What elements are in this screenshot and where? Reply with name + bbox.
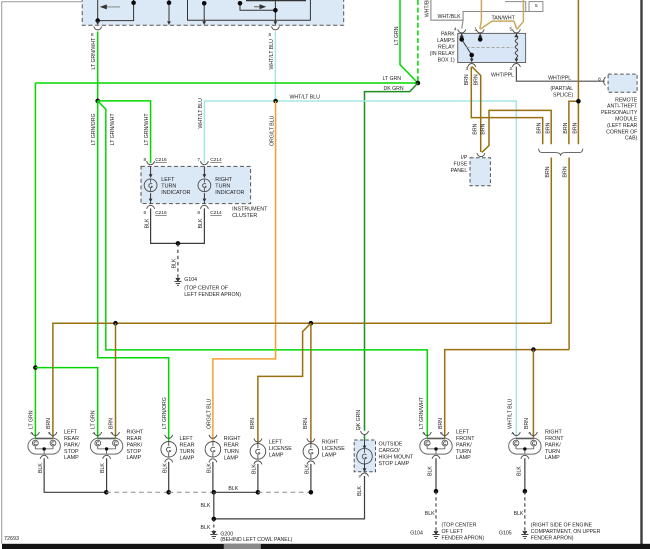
svg-text:TAN/WHT: TAN/WHT: [492, 15, 516, 21]
svg-text:BRN: BRN: [480, 123, 486, 134]
svg-text:OF LEFT: OF LEFT: [442, 529, 464, 535]
svg-text:WHT/LT BLU: WHT/LT BLU: [198, 98, 204, 129]
svg-text:3: 3: [466, 66, 469, 72]
connector lamp6 bottom: [307, 461, 315, 465]
connector C214 bottom pin 8: [200, 205, 208, 209]
svg-text:BRN: BRN: [546, 122, 552, 133]
svg-text:7: 7: [197, 157, 200, 163]
wire BRN to right license lamp: [310, 323, 312, 444]
wire inside box pin C: [203, 3, 205, 23]
junction BLK bus lamp3: [166, 490, 171, 495]
svg-text:BLK: BLK: [200, 525, 210, 531]
lamp L5 left license: [250, 444, 266, 460]
svg-text:WHT/BLK: WHT/BLK: [438, 14, 462, 20]
svg-text:BRN: BRN: [572, 122, 578, 133]
lamp L3 left rear turn: [161, 442, 177, 458]
wire ORG/LT BLU down: [213, 101, 276, 442]
svg-text:BLK: BLK: [425, 511, 435, 517]
lamp L9 right front park/turn: [509, 438, 541, 454]
svg-text:LT GRN: LT GRN: [383, 76, 402, 82]
lamp L8 left front park/turn: [420, 438, 452, 454]
wire BLK bus dashed 2: [169, 491, 214, 493]
svg-text:DK GRN: DK GRN: [384, 86, 404, 92]
svg-text:LT GRN: LT GRN: [394, 26, 400, 45]
svg-text:FRONT: FRONT: [545, 436, 564, 442]
exit arrow box A: [96, 21, 100, 25]
wire BRN relay pin3 straight: [471, 67, 542, 145]
wire WHT/BLK: [431, 0, 529, 29]
svg-text:LT GRN/WHT: LT GRN/WHT: [91, 37, 97, 70]
svg-text:BRN: BRN: [563, 166, 569, 177]
svg-text:LICENSE: LICENSE: [322, 446, 345, 452]
exit arrow box B: [167, 21, 171, 25]
connector lamp7 bottom pin 1: [361, 473, 369, 477]
connector lamp4 bottom: [209, 459, 217, 463]
svg-text:BRN: BRN: [474, 74, 480, 85]
wire BRN to lamp2: [115, 323, 117, 438]
relay coil: [515, 33, 518, 60]
connector lamp9 bottom: [521, 455, 529, 459]
svg-text:(BEHIND LEFT COWL PANEL): (BEHIND LEFT COWL PANEL): [220, 537, 292, 543]
brace: [539, 149, 583, 156]
svg-text:LEFT FENDER APRON): LEFT FENDER APRON): [184, 292, 241, 298]
svg-text:REAR: REAR: [224, 443, 239, 449]
junction BLK cargo return: [212, 517, 217, 522]
svg-text:LAMP: LAMP: [322, 452, 337, 458]
svg-text:C216: C216: [155, 157, 167, 163]
connector lamp8 bottom: [432, 455, 440, 459]
junction in box at cyan riser: [273, 8, 278, 13]
connector at fuse panel: [477, 153, 485, 157]
lamp L2 right rear park/stop: [90, 438, 122, 454]
junction rear bus license: [309, 321, 314, 326]
svg-text:RIGHT: RIGHT: [322, 439, 339, 445]
svg-text:PANEL: PANEL: [451, 168, 468, 174]
svg-text:INDICATOR: INDICATOR: [161, 190, 190, 196]
connector C216 top pin 8: [147, 161, 155, 165]
svg-text:8: 8: [144, 157, 147, 163]
svg-text:1: 1: [474, 27, 477, 33]
svg-text:CORNER OF: CORNER OF: [606, 129, 637, 135]
svg-text:LEFT: LEFT: [64, 430, 78, 436]
svg-text:8: 8: [197, 210, 200, 216]
svg-text:RIGHT: RIGHT: [127, 430, 144, 436]
I/P fuse panel: [470, 158, 490, 186]
svg-text:BLK: BLK: [516, 466, 522, 476]
wire BRN relay pin3 diagonal to fuse panel: [472, 67, 481, 152]
svg-text:LAMP: LAMP: [127, 455, 142, 461]
svg-text:LAMP: LAMP: [456, 455, 471, 461]
wire BRN splice branch: [569, 101, 579, 144]
remote anti-theft personality module: [608, 74, 637, 92]
wire BRN to right front lamp: [532, 350, 534, 439]
svg-text:CAB): CAB): [625, 136, 638, 142]
svg-text:WHT/BLK: WHT/BLK: [425, 0, 431, 17]
wire BRN below brace to rear bus: [550, 158, 552, 324]
svg-text:LT GRN: LT GRN: [91, 410, 97, 429]
junction LT GRN/WHT node: [95, 99, 100, 104]
wire BLK cluster left drop: [151, 208, 178, 243]
svg-text:BLK: BLK: [305, 464, 311, 474]
wire inside box pin A: [98, 0, 134, 23]
svg-text:LT GRN/WHT: LT GRN/WHT: [110, 113, 116, 146]
junction in box A: [95, 18, 100, 23]
wire LT GRN solid vertical top: [400, 0, 418, 83]
svg-text:HIGH MOUNT: HIGH MOUNT: [379, 454, 414, 460]
svg-text:INDICATOR: INDICATOR: [215, 190, 244, 196]
svg-text:COMPARTMENT, ON UPPER: COMPARTMENT, ON UPPER: [531, 529, 601, 535]
svg-text:BLK: BLK: [162, 463, 168, 473]
svg-text:4: 4: [454, 27, 457, 33]
junction lamp9 ground: [523, 489, 528, 494]
svg-text:LAMP: LAMP: [180, 456, 195, 462]
relay switch blade: [462, 33, 481, 60]
junction lamp feed split: [33, 365, 38, 370]
junction top of box D: [238, 1, 243, 6]
wire WHT/LT BLU horizontal: [204, 101, 516, 438]
relay dashed link: [467, 46, 513, 48]
connector C214 top pin 7: [200, 161, 208, 165]
svg-text:WHT/LT BLU: WHT/LT BLU: [290, 95, 321, 101]
svg-text:LT GRN/WHT: LT GRN/WHT: [419, 396, 425, 429]
svg-text:RIGHT: RIGHT: [545, 430, 562, 436]
wire BLK dashed to G200: [213, 519, 215, 532]
svg-text:FENDER APRON): FENDER APRON): [531, 536, 574, 542]
svg-text:BLK: BLK: [514, 511, 524, 517]
svg-text:6: 6: [144, 210, 147, 216]
wire BLK bus solid to left license: [214, 491, 258, 493]
wire BLK dashed to G104: [435, 491, 437, 531]
wire BLK dashed to G105: [524, 491, 526, 531]
wire DK GRN dashed vertical top: [417, 0, 419, 83]
svg-text:BLK: BLK: [198, 218, 204, 228]
junction WHT/LT BLU node: [273, 99, 278, 104]
lamp L1 left rear park/stop: [28, 438, 60, 454]
svg-text:BRN: BRN: [545, 166, 551, 177]
left arrow glyph in box: [100, 4, 120, 9]
connector lamp2 bottom: [103, 455, 111, 459]
svg-text:LT GRN/ORG: LT GRN/ORG: [91, 113, 97, 145]
svg-text:BLK: BLK: [200, 503, 210, 509]
svg-text:REAR: REAR: [64, 436, 79, 442]
svg-text:BLK: BLK: [38, 463, 44, 473]
svg-text:ORG/LT BLU: ORG/LT BLU: [269, 115, 275, 146]
wire BRN to left license lamp: [258, 323, 311, 444]
svg-text:CLUSTER: CLUSTER: [232, 213, 257, 219]
junction BLK bus lamp2: [104, 490, 109, 495]
wire BLK lamp1: [44, 458, 106, 492]
wire LT GRN/WHT from box down: [97, 32, 99, 101]
svg-text:BRN: BRN: [303, 418, 309, 429]
wire inside box pin B: [168, 0, 170, 23]
svg-text:LICENSE: LICENSE: [269, 446, 292, 452]
connector lamp1 bottom: [40, 455, 48, 459]
svg-text:BRN: BRN: [536, 122, 542, 133]
svg-text:TURN: TURN: [180, 449, 195, 455]
svg-text:(PARTIAL: (PARTIAL: [550, 86, 573, 92]
connector box top-left (cut off at top): [82, 0, 344, 25]
svg-text:G104: G104: [410, 530, 423, 536]
cut component edge above box: [246, 0, 306, 2]
relay pin 2 connector: [512, 64, 520, 67]
svg-text:C214: C214: [210, 210, 222, 216]
junction BLK bus lamp5: [256, 490, 261, 495]
ground G105: [521, 531, 528, 538]
svg-text:FUSE: FUSE: [453, 162, 467, 168]
svg-text:LT GRN: LT GRN: [28, 410, 34, 429]
wire WHT/PPL from relay pin 2: [516, 67, 604, 82]
connector lamp5: [254, 439, 262, 443]
svg-text:LAMP: LAMP: [269, 452, 284, 458]
svg-text:WHT/PPL: WHT/PPL: [548, 75, 571, 81]
wire BLK lamp8: [435, 458, 437, 491]
junction BLK cluster: [176, 241, 181, 246]
svg-text:LEFT: LEFT: [269, 439, 283, 445]
junction lamp8 ground: [434, 489, 439, 494]
relay pin 3 connector: [468, 64, 476, 67]
svg-text:PARK/: PARK/: [456, 442, 472, 448]
svg-text:BRN: BRN: [524, 418, 530, 429]
svg-text:BRN: BRN: [438, 418, 444, 429]
connector lamp5 bottom: [254, 461, 262, 465]
svg-text:INSTRUMENT: INSTRUMENT: [232, 206, 268, 212]
relay pin 1 connector: [476, 29, 484, 33]
wire BRN below brace to front bus: [568, 158, 570, 350]
svg-text:(TOP CENTER OF: (TOP CENTER OF: [184, 286, 228, 292]
svg-text:BLK: BLK: [428, 466, 434, 476]
wire BLK dashed to G104: [177, 243, 179, 278]
svg-text:I/P: I/P: [461, 155, 468, 161]
ground G104 (front): [432, 531, 439, 538]
svg-text:FRONT: FRONT: [456, 436, 475, 442]
svg-text:TURN: TURN: [456, 449, 471, 455]
svg-text:C214: C214: [210, 157, 222, 163]
wire BLK lamp9: [524, 458, 526, 491]
svg-text:(TOP CENTER: (TOP CENTER: [442, 523, 477, 529]
svg-text:OUTSIDE: OUTSIDE: [379, 441, 403, 447]
connectors lamp1: [31, 432, 39, 436]
wire BLK bus dashed 1: [106, 491, 168, 493]
svg-text:BOX 1): BOX 1): [438, 57, 455, 63]
svg-text:LEFT: LEFT: [161, 177, 175, 183]
exit arrow box cyan: [274, 21, 278, 25]
svg-text:PARK/: PARK/: [545, 442, 561, 448]
svg-text:REAR: REAR: [180, 443, 195, 449]
connector lamp3 bottom: [165, 459, 173, 463]
svg-text:TURN: TURN: [545, 449, 560, 455]
wire BLK lamp7: [214, 476, 365, 519]
ground G104 (cluster): [174, 278, 181, 285]
left turn indicator bulb: [144, 166, 157, 203]
wire inside box L-run to cyan exit: [188, 0, 311, 23]
connector lamp7: [361, 431, 369, 435]
svg-text:(LEFT REAR: (LEFT REAR: [607, 123, 637, 129]
svg-text:BRN: BRN: [108, 418, 114, 429]
connector lamp3: [165, 435, 173, 439]
connector at box exit LT GRN/WHT pin 8: [94, 26, 102, 30]
svg-text:TURN: TURN: [224, 449, 239, 455]
svg-text:8: 8: [598, 76, 601, 82]
lamp L4 right rear turn: [205, 442, 221, 458]
junction rear bus lamp2: [113, 321, 118, 326]
svg-text:CARGO/: CARGO/: [379, 448, 401, 454]
svg-text:LAMPS: LAMPS: [437, 38, 455, 44]
junction top of box C: [202, 1, 207, 6]
wire BLK lamp6: [310, 464, 312, 492]
instrument cluster box: [141, 166, 251, 203]
svg-text:BLK: BLK: [357, 486, 363, 496]
svg-text:PARK/: PARK/: [127, 442, 143, 448]
svg-text:WHT/PPL: WHT/PPL: [491, 72, 514, 78]
svg-text:STOP LAMP: STOP LAMP: [379, 461, 410, 467]
exit arrow box C: [202, 21, 206, 25]
lamp L6 right license: [303, 444, 319, 460]
wire DK GRN to cargo lamp: [365, 83, 418, 431]
right arrow glyph in box: [254, 4, 266, 9]
svg-text:BRN: BRN: [464, 74, 470, 85]
wire LT GRN left riser to lamp1: [34, 83, 36, 438]
connector box fragment top right pin 5: [505, 2, 543, 12]
svg-text:BRN: BRN: [563, 122, 569, 133]
svg-text:RELAY: RELAY: [438, 45, 455, 51]
svg-text:LAMP: LAMP: [64, 455, 79, 461]
svg-text:BLK: BLK: [252, 464, 258, 474]
wire BLK lamp4: [212, 462, 214, 493]
connector lamp4: [209, 435, 217, 439]
svg-text:5: 5: [535, 3, 538, 9]
svg-text:BLK: BLK: [172, 258, 178, 268]
wire WHT/LT BLU from box down: [274, 32, 276, 102]
svg-text:2: 2: [510, 66, 513, 72]
svg-text:BLK: BLK: [100, 463, 106, 473]
svg-text:RIGHT: RIGHT: [224, 436, 241, 442]
svg-text:6: 6: [269, 32, 272, 38]
relay pin entry arrows: [460, 34, 464, 37]
junction LT GRN / DK GRN: [416, 81, 421, 86]
svg-text:LT GRN/WHT: LT GRN/WHT: [144, 113, 150, 146]
park lamps relay U1: [458, 33, 526, 62]
wire BRN fuse panel riser: [482, 110, 551, 152]
svg-text:8: 8: [91, 32, 94, 38]
wire LT GRN branch to lamp2: [35, 368, 97, 439]
wire BLK lamp3: [168, 462, 170, 493]
svg-text:TURN: TURN: [161, 184, 176, 190]
connector at box exit WHT/LT BLU pin 6: [271, 26, 279, 30]
svg-text:MODULE: MODULE: [615, 117, 638, 123]
svg-text:BLK: BLK: [228, 486, 238, 492]
svg-text:BRN: BRN: [473, 123, 479, 134]
svg-text:BLK: BLK: [207, 463, 213, 473]
right turn indicator bulb: [198, 166, 211, 203]
svg-text:REAR: REAR: [127, 436, 142, 442]
relay pin 4 connector: [458, 29, 466, 33]
connectors lamp2: [94, 432, 102, 436]
lamp L7 outside cargo/high mount stop: [354, 435, 375, 472]
svg-text:PERSONALITY: PERSONALITY: [601, 110, 638, 116]
relay pin 5 connector: [512, 29, 520, 33]
svg-text:WHT/LT BLU: WHT/LT BLU: [269, 39, 275, 70]
svg-text:LEFT: LEFT: [456, 430, 470, 436]
wire BRN rear bus: [53, 323, 551, 438]
svg-text:72693: 72693: [4, 536, 19, 542]
svg-text:BLK: BLK: [144, 218, 150, 228]
svg-text:LT GRN/ORG: LT GRN/ORG: [162, 397, 168, 429]
svg-text:LEFT: LEFT: [180, 436, 194, 442]
junction BLK bus lamp6: [309, 490, 314, 495]
svg-text:LAMP: LAMP: [545, 455, 560, 461]
junction top of box B: [167, 1, 172, 6]
wire LT GRN horizontal main: [35, 82, 418, 84]
svg-text:5: 5: [510, 27, 513, 33]
svg-text:(RIGHT SIDE OF ENGINE: (RIGHT SIDE OF ENGINE: [531, 523, 593, 529]
connector at module pin 8: [604, 77, 606, 86]
wire TAN/WHT to relay pin 1: [480, 0, 514, 29]
wire BLK lamp5: [257, 464, 259, 492]
svg-text:RIGHT: RIGHT: [215, 177, 232, 183]
svg-text:REMOTE: REMOTE: [615, 97, 638, 103]
svg-text:BRN: BRN: [46, 418, 52, 429]
wire BLK lamp2: [106, 458, 108, 492]
svg-text:STOP: STOP: [127, 449, 142, 455]
junction BLK bus G200: [212, 490, 217, 495]
wire BLK cluster right drop: [178, 208, 205, 243]
wire LT GRN/WHT jog down to front lamp: [98, 101, 428, 439]
wire BRN front bus: [445, 350, 569, 439]
svg-text:G105: G105: [499, 530, 512, 536]
svg-text:FENDER APRON): FENDER APRON): [442, 536, 485, 542]
wire TAN/WHT to relay pin 5: [514, 0, 523, 29]
svg-text:STOP: STOP: [64, 449, 79, 455]
svg-text:WHT/LT BLU: WHT/LT BLU: [508, 398, 514, 429]
svg-text:BRN: BRN: [250, 418, 256, 429]
wire LT GRN/ORG down: [98, 101, 169, 442]
svg-text:SPLICE): SPLICE): [553, 92, 573, 98]
connector lamp6: [307, 439, 315, 443]
svg-text:G104: G104: [184, 277, 197, 283]
svg-text:ANTI-THEFT: ANTI-THEFT: [607, 104, 638, 110]
wire BLK bus dashed 3: [258, 491, 311, 493]
junction front bus right lamp: [531, 347, 536, 352]
svg-text:ORG/LT BLU: ORG/LT BLU: [206, 398, 212, 429]
svg-text:PARK/: PARK/: [64, 442, 80, 448]
connectors lamp8: [423, 432, 431, 436]
ground G200: [210, 531, 217, 538]
svg-text:C216: C216: [155, 210, 167, 216]
svg-text:TURN: TURN: [215, 184, 230, 190]
wire LT GRN/WHT branch to cluster pin 8: [98, 101, 151, 163]
junction partial splice: [576, 99, 581, 104]
wire BRN tan splice drop: [577, 0, 579, 144]
svg-text:(IN RELAY: (IN RELAY: [430, 51, 456, 57]
wire BLK G200 drop: [213, 492, 215, 519]
connectors lamp9: [512, 432, 520, 436]
connector C216 bottom pin 6: [147, 205, 155, 209]
svg-text:LAMP: LAMP: [224, 456, 239, 462]
junction top of box A: [131, 1, 136, 6]
